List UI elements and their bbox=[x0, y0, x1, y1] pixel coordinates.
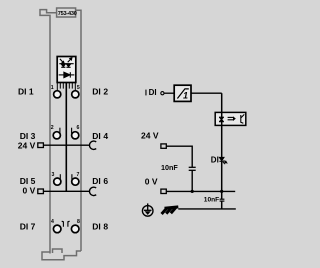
svg-text:DI: DI bbox=[92, 131, 101, 141]
svg-text:8: 8 bbox=[103, 222, 108, 232]
svg-text:24 V: 24 V bbox=[141, 130, 159, 140]
svg-text:5: 5 bbox=[77, 85, 80, 91]
svg-text:1: 1 bbox=[183, 91, 188, 101]
svg-text:4: 4 bbox=[103, 131, 108, 141]
svg-text:DI: DI bbox=[92, 87, 101, 97]
svg-text:0 V: 0 V bbox=[145, 177, 158, 187]
svg-text:2: 2 bbox=[103, 87, 108, 97]
svg-text:7: 7 bbox=[77, 172, 80, 178]
svg-text:4: 4 bbox=[51, 219, 54, 225]
svg-text:DI 1: DI 1 bbox=[18, 87, 34, 97]
svg-text:8: 8 bbox=[77, 219, 80, 225]
svg-text:DI: DI bbox=[211, 156, 219, 165]
svg-text:10nF: 10nF bbox=[161, 163, 178, 172]
svg-text:DI: DI bbox=[92, 222, 101, 232]
svg-text:753-430: 753-430 bbox=[58, 11, 77, 17]
svg-text:6: 6 bbox=[103, 176, 108, 186]
svg-text:DI: DI bbox=[149, 88, 157, 97]
svg-text:2: 2 bbox=[51, 125, 54, 131]
svg-text:DI 7: DI 7 bbox=[20, 222, 36, 232]
svg-text:0 V: 0 V bbox=[23, 185, 36, 195]
svg-text:24 V: 24 V bbox=[18, 140, 36, 150]
svg-text:10nF: 10nF bbox=[204, 197, 219, 204]
svg-text:DI: DI bbox=[92, 176, 101, 186]
svg-text:3: 3 bbox=[52, 172, 55, 178]
svg-text:6: 6 bbox=[77, 125, 80, 131]
svg-text:1: 1 bbox=[51, 85, 54, 91]
